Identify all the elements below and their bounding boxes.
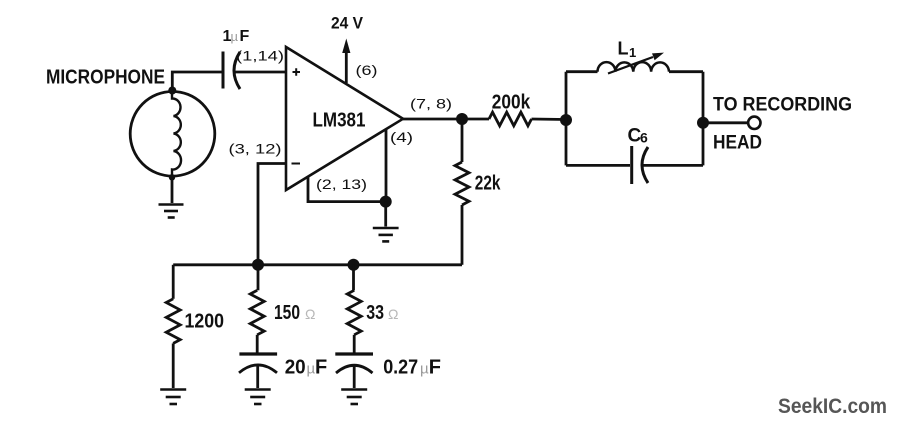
wire: microphone to C1 bbox=[172, 72, 221, 92]
wire: tank bottom left segment bbox=[566, 164, 630, 167]
svg-text:µ: µ bbox=[231, 29, 239, 44]
wire: R 200k to tank left node bbox=[532, 118, 567, 121]
wire: inverting input to bottom rail bbox=[258, 164, 286, 265]
svg-text:Ω: Ω bbox=[305, 306, 315, 322]
wire: pins 2,13 to ground junction bbox=[308, 177, 386, 202]
svg-text:0.27: 0.27 bbox=[383, 357, 418, 379]
svg-text:F: F bbox=[315, 357, 327, 379]
svg-text:(1,14): (1,14) bbox=[236, 48, 284, 64]
resistor R 200k bbox=[489, 112, 532, 126]
svg-text:24 V: 24 V bbox=[331, 14, 364, 33]
wire: rail node A to R 150 bbox=[257, 265, 260, 291]
ground: R 1200 bbox=[160, 390, 186, 405]
wire: tank top left segment bbox=[566, 70, 598, 73]
junction: rail node B bbox=[348, 259, 360, 271]
svg-text:22k: 22k bbox=[475, 173, 501, 195]
svg-text:1: 1 bbox=[629, 45, 636, 60]
svg-text:6: 6 bbox=[640, 130, 648, 146]
svg-text:200k: 200k bbox=[492, 92, 531, 114]
microphone MIC1 bbox=[130, 92, 215, 178]
svg-text:20: 20 bbox=[285, 357, 306, 379]
op-amp U1 LM381 bbox=[286, 47, 403, 190]
svg-text:(4): (4) bbox=[390, 129, 413, 145]
resistor R 33 bbox=[347, 290, 361, 335]
wire: 22k lower to bottom rail bbox=[461, 205, 464, 265]
svg-text:F: F bbox=[429, 357, 441, 379]
svg-text:150: 150 bbox=[274, 302, 300, 324]
wire: rail node B to R 33 bbox=[352, 265, 355, 291]
wire: op-amp output bbox=[403, 118, 462, 121]
wire: junction to op-amp ground bbox=[384, 202, 387, 227]
wire: C 0.27uF to ground bbox=[353, 365, 356, 388]
ground: op-amp bbox=[373, 228, 399, 241]
wire: rail to R 1200 bbox=[172, 265, 175, 299]
wire: R 150 to C 20uF bbox=[256, 335, 259, 353]
wire: R 33 to C 0.27uF bbox=[353, 335, 356, 353]
ground: microphone bbox=[159, 205, 184, 218]
svg-text:F: F bbox=[240, 28, 250, 45]
capacitor C 0.27uF bbox=[335, 354, 373, 373]
wire: R 1200 to ground bbox=[172, 343, 175, 388]
junction: output node bbox=[456, 113, 468, 125]
resistor R 1200 bbox=[166, 299, 180, 344]
svg-text:(3, 12): (3, 12) bbox=[229, 141, 282, 157]
svg-text:TO RECORDING: TO RECORDING bbox=[713, 95, 852, 116]
wire: tank top right segment bbox=[669, 70, 703, 73]
wire: bottom rail bbox=[173, 263, 462, 266]
ground: C 0.27uF bbox=[341, 390, 367, 405]
svg-text:µ: µ bbox=[420, 361, 429, 378]
wire: 22k upper bbox=[461, 119, 464, 162]
wire: output node to R 200k bbox=[462, 118, 489, 121]
wire: tank right edge bbox=[702, 72, 705, 166]
junction: rail node A bbox=[252, 259, 264, 271]
inductor L1 bbox=[598, 53, 670, 74]
svg-text:(2, 13): (2, 13) bbox=[316, 176, 367, 192]
wire: microphone to ground bbox=[171, 177, 174, 204]
capacitor C 20uF bbox=[239, 354, 277, 373]
svg-text:L: L bbox=[618, 39, 629, 59]
svg-text:Ω: Ω bbox=[388, 306, 398, 322]
wire: C1 to op-amp non-inverting input bbox=[235, 71, 286, 74]
wire: C 20uF to ground bbox=[256, 365, 259, 388]
svg-text:1200: 1200 bbox=[185, 311, 225, 333]
terminal: recording head bbox=[748, 117, 760, 129]
junction: tank right node bbox=[697, 117, 709, 129]
wire: tank bottom right segment bbox=[641, 164, 703, 167]
junction: microphone top node bbox=[168, 87, 176, 95]
supply V+ 24V arrow bbox=[342, 39, 350, 84]
wire: pin 4 to ground junction bbox=[385, 129, 388, 202]
junction: pins 2,13 and 4 node bbox=[380, 196, 392, 208]
svg-text:HEAD: HEAD bbox=[713, 133, 762, 154]
svg-text:LM381: LM381 bbox=[313, 109, 366, 131]
svg-text:MICROPHONE: MICROPHONE bbox=[46, 67, 165, 89]
svg-text:(7, 8): (7, 8) bbox=[410, 96, 452, 112]
resistor R 150 bbox=[250, 290, 264, 335]
junction: microphone bottom node bbox=[169, 174, 175, 180]
svg-text:33: 33 bbox=[366, 302, 384, 324]
svg-text:SeekIC.com: SeekIC.com bbox=[778, 395, 887, 418]
wire: tank left edge bbox=[565, 72, 568, 166]
wire: tank to output terminal bbox=[703, 121, 748, 124]
capacitor C6 bbox=[632, 146, 648, 184]
resistor R 22k bbox=[455, 162, 469, 205]
junction: tank left node bbox=[560, 114, 572, 126]
ground: C 20uF bbox=[245, 390, 271, 405]
svg-text:(6): (6) bbox=[356, 62, 378, 78]
capacitor C1 bbox=[223, 52, 240, 90]
